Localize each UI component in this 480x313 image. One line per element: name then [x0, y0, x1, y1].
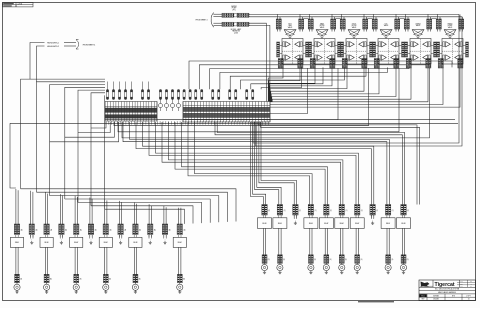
wire valve V3 return a — [270, 68, 347, 102]
svg-text:Tigercat: Tigercat — [435, 282, 455, 288]
wire column feed — [178, 208, 180, 224]
wire bus-rightgroup — [259, 122, 294, 205]
wire relay down — [178, 247, 180, 274]
wire column feed — [89, 198, 91, 225]
beacon lamp — [177, 284, 183, 290]
wire harness row2 left — [213, 22, 222, 24]
wire valve drop 2 — [270, 68, 338, 120]
wire column feed — [59, 194, 61, 224]
relay box KR2 — [273, 218, 287, 229]
wire bus-rightgroup — [156, 122, 359, 205]
svg-text:PUMP: PUMP — [232, 8, 237, 10]
ground symbol — [16, 290, 18, 292]
wire bus-valve supply — [189, 61, 452, 89]
wire bus-valve supply — [210, 67, 409, 89]
wire relay down — [74, 247, 76, 274]
wire bus-rightgroup — [130, 122, 390, 205]
connector lower — [339, 255, 341, 263]
ground symbol — [341, 271, 343, 273]
wire column feed — [15, 189, 17, 224]
connector stack P11 — [162, 224, 164, 235]
print info text — [358, 301, 394, 303]
wire stub + ground — [370, 215, 372, 219]
wire bus-valve supply — [230, 67, 366, 89]
connector stack P9 — [133, 224, 135, 235]
wire highlights-2 — [37, 46, 45, 82]
ground symbol — [264, 271, 266, 273]
connector stack R5 — [324, 205, 326, 216]
bus feed lines long — [105, 119, 455, 121]
wire left drop — [10, 123, 16, 188]
connector lower — [355, 255, 357, 263]
wire down — [278, 228, 280, 254]
relay box KR9 — [381, 218, 395, 229]
wire bus-rightgroup — [182, 122, 328, 205]
wire valve V4 return a — [271, 68, 379, 102]
lamp — [323, 264, 329, 270]
bus-left under-band fan — [91, 122, 106, 128]
sheet flag bracket — [76, 40, 79, 50]
svg-text:HIGHLIGHTS-2: HIGHLIGHTS-2 — [47, 46, 59, 48]
connector lower — [324, 255, 326, 263]
connector stack P10 — [148, 224, 150, 235]
wire bus-rightgroup — [195, 122, 313, 205]
wire valve V2 return b — [270, 68, 332, 102]
relay box K2 — [40, 237, 53, 247]
sheet reference bracket — [211, 13, 214, 28]
valve assembly V5 — [404, 14, 436, 68]
svg-text:DWG: DWG — [460, 281, 463, 283]
connector stack R9 — [385, 205, 387, 216]
wire valve V5 return a — [272, 68, 411, 102]
wire down — [386, 228, 388, 254]
top jumper wires — [304, 17, 309, 19]
wire relay down — [45, 247, 47, 274]
wire column feed — [30, 191, 32, 224]
svg-text:FROM SHEET 4: FROM SHEET 4 — [83, 44, 96, 46]
title lower cells — [426, 294, 428, 301]
svg-text:D1: D1 — [468, 299, 470, 301]
connector J1 row — [222, 13, 234, 17]
wire bus-rightgroup — [175, 122, 325, 205]
wire column feed — [104, 199, 106, 224]
fuse risers left cluster — [107, 82, 109, 90]
connector lower — [177, 274, 179, 283]
wire bus-valve supply — [199, 65, 430, 90]
wire stub + ground — [59, 235, 61, 239]
valve assembly V6 — [436, 14, 468, 68]
relay box K4 — [99, 237, 112, 247]
wire bus-rightgroup — [149, 122, 356, 205]
lamp — [385, 264, 391, 270]
connector stack R10 — [401, 205, 403, 216]
wire stub + ground — [89, 235, 91, 239]
valve assembly V1 — [276, 14, 308, 68]
ground symbol — [325, 271, 327, 273]
wire bus-left — [78, 90, 105, 202]
wire valve V5 return b — [270, 68, 428, 102]
wire stub + ground — [30, 235, 32, 239]
wire down — [262, 228, 264, 254]
relay box K1 — [10, 237, 23, 247]
connector stack P1 — [14, 224, 16, 235]
wire bus-left — [104, 96, 106, 210]
wire valve V6 return a — [270, 68, 443, 105]
wire harness row1 left — [213, 13, 222, 15]
relay box KR1 — [258, 218, 272, 229]
lamp — [308, 264, 314, 270]
wire bus-rightgroup — [217, 122, 405, 205]
valve assembly V2 — [308, 14, 340, 68]
stair horizontals to right — [21, 189, 236, 222]
connector lower — [133, 274, 135, 283]
wire bus-valve supply — [241, 67, 345, 89]
svg-text:49443B: 49443B — [433, 299, 438, 301]
wire stub + ground — [293, 215, 295, 219]
wire bus-rightgroup — [169, 122, 343, 205]
wire column feed — [119, 201, 121, 224]
lamp — [277, 264, 283, 270]
svg-text:2 OF 7: 2 OF 7 — [466, 295, 471, 297]
beacon lamp — [44, 284, 50, 290]
wire bus-valve supply — [220, 67, 388, 89]
band bottom stubs — [105, 121, 107, 124]
svg-text:SWING: SWING — [415, 23, 421, 25]
wire down — [309, 228, 311, 254]
terminal strip left — [105, 102, 157, 122]
wire bus-left — [91, 93, 105, 206]
wire bus-rightgroup — [257, 122, 281, 205]
connector stack P5 — [74, 224, 76, 235]
wire stub + ground — [163, 235, 165, 239]
ground symbol — [279, 271, 281, 273]
svg-text:FROM SHEET 4: FROM SHEET 4 — [196, 19, 208, 21]
title block — [419, 280, 476, 301]
beacon lamp — [132, 284, 138, 290]
wire bus-rightgroup — [253, 122, 266, 205]
wire bus-rightgroup — [251, 122, 264, 205]
fuse row — [106, 90, 108, 100]
wire harness row2 right — [249, 23, 267, 101]
wire valve V6 return b — [270, 68, 460, 107]
lamp — [339, 264, 345, 270]
wire down — [340, 228, 342, 254]
far right drops — [253, 14, 459, 143]
wire column feed — [163, 206, 165, 224]
relay box KR7 — [350, 218, 364, 229]
wire column feed — [45, 192, 47, 224]
wire bus-left — [65, 87, 105, 199]
connector stack R7 — [355, 205, 357, 216]
connector stack P2 — [29, 224, 31, 235]
connector lower — [262, 255, 264, 263]
ground symbol — [46, 290, 48, 292]
connector lower — [44, 274, 46, 283]
ground symbol — [356, 271, 358, 273]
connector stack P4 — [59, 224, 61, 235]
connector lower — [74, 274, 76, 283]
wire valve drop 3 — [114, 68, 369, 126]
wire column feed — [133, 203, 135, 224]
wire relay down — [133, 247, 135, 274]
lamp — [261, 264, 267, 270]
wire valve V1 return a — [268, 68, 283, 102]
wire bus-left — [21, 79, 105, 189]
wire bus-valve supply — [251, 67, 323, 89]
relay box KR6 — [335, 218, 349, 229]
relay box K3 — [70, 237, 83, 247]
connector lower — [308, 255, 310, 263]
svg-text:36994B: 36994B — [433, 295, 439, 297]
beacon lamp — [103, 284, 109, 290]
wire bus-left — [37, 82, 106, 192]
wire bus-rightgroup — [123, 122, 387, 205]
connector lower — [15, 274, 17, 283]
connector stack R4 — [308, 205, 310, 216]
wire valve drop 1 — [270, 68, 308, 114]
wire down — [355, 228, 357, 254]
ground symbol — [179, 290, 181, 292]
wire column feed — [74, 196, 76, 224]
wire relay down — [15, 247, 17, 274]
wire down — [401, 228, 403, 254]
wire valve drop 4 — [118, 68, 399, 132]
valve assembly V4 — [372, 14, 404, 68]
beacon lamp — [14, 284, 20, 290]
relay box K5 — [129, 237, 142, 247]
connector stack R1 — [262, 205, 264, 216]
wire valve V2 return a — [269, 68, 315, 102]
lamp — [400, 264, 406, 270]
wire bus-rightgroup — [143, 122, 374, 205]
svg-text:REV: REV — [422, 299, 425, 301]
wire down — [324, 228, 326, 254]
relay box KR10 — [397, 218, 411, 229]
svg-text:BOOM: BOOM — [320, 25, 325, 27]
revision table top-left — [3, 3, 34, 7]
svg-text:HIGHLIGHTS-1: HIGHLIGHTS-1 — [47, 42, 59, 44]
connector stack R6 — [339, 205, 341, 216]
relay box KR5 — [319, 218, 333, 229]
svg-text:(P7): (P7) — [232, 9, 235, 11]
ground symbol — [387, 271, 389, 273]
connector lower — [386, 255, 388, 263]
wire stub + ground — [118, 235, 120, 239]
connector lower — [278, 255, 280, 263]
wire harness row1 right to top bus — [249, 13, 459, 15]
wire valve V3 return b — [271, 68, 364, 102]
terminal strip right — [183, 102, 270, 123]
wire upper long feeds — [258, 122, 417, 205]
svg-text:STICK: STICK — [352, 23, 356, 25]
wire stub + ground — [148, 235, 150, 239]
connector stack P7 — [103, 224, 105, 235]
wire valve drop 5 — [122, 68, 430, 138]
ground symbol — [403, 271, 405, 273]
wire relay down — [104, 247, 106, 274]
wire bus-rightgroup — [162, 122, 341, 205]
wire bus-rightgroup — [261, 122, 297, 205]
wire bus-rightgroup — [215, 122, 402, 205]
connector stack P8 — [118, 224, 120, 235]
svg-text:HOT: HOT — [288, 23, 291, 25]
ground symbol — [310, 271, 312, 273]
wire valve V1 return b — [269, 68, 300, 102]
svg-text:(24V): (24V) — [234, 32, 238, 34]
connector stack P6 — [88, 224, 90, 235]
wire column feed — [148, 204, 150, 224]
connector stack P12 — [177, 224, 179, 235]
wire bus-rightgroup — [136, 122, 371, 205]
connector stack R2 — [277, 205, 279, 216]
connector stack R3 — [293, 205, 295, 216]
svg-text:TILT: TILT — [385, 23, 388, 25]
relay box K6 — [173, 237, 186, 247]
wire bus-rightgroup — [255, 122, 279, 205]
svg-text:BOOM: BOOM — [352, 25, 357, 27]
connector J2 row — [222, 22, 234, 26]
ground symbol — [105, 290, 107, 292]
lamp — [354, 264, 360, 270]
wire valve V4 return b — [272, 68, 396, 102]
wire bus-valve supply — [261, 67, 301, 89]
title block right cells — [467, 280, 469, 287]
connector stack R8 — [370, 205, 372, 216]
connector lower — [401, 255, 403, 263]
ground symbol — [75, 290, 77, 292]
wire highlights-1 — [30, 43, 45, 80]
wire bus-left — [50, 85, 105, 196]
tigercat logo — [421, 282, 430, 287]
relay box KR4 — [304, 218, 318, 229]
beacon lamp — [73, 284, 79, 290]
connector lower — [103, 274, 105, 283]
ground symbol — [134, 290, 136, 292]
svg-text:NTS: NTS — [452, 295, 455, 297]
bulkhead circles — [158, 103, 162, 107]
connector stack P3 — [44, 224, 46, 235]
svg-text:DRIVE: DRIVE — [448, 25, 453, 27]
wire bus-rightgroup — [188, 122, 310, 205]
svg-text:REV: REV — [470, 281, 472, 283]
valve assembly V3 — [340, 14, 372, 68]
svg-text:4-TON: 4-TON — [18, 3, 22, 5]
